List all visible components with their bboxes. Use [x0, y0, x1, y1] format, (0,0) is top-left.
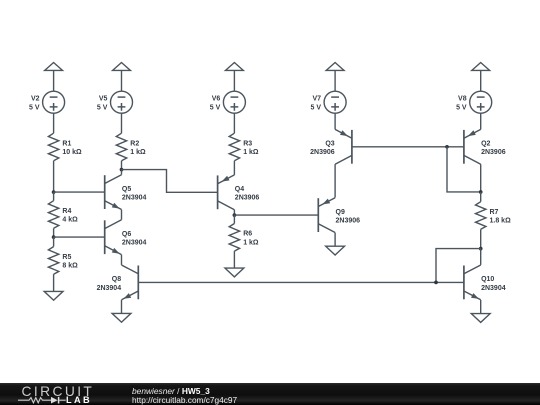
ground G4: [326, 246, 345, 255]
wire node A to R4: [53, 192, 55, 201]
wire node D to R6: [233, 215, 235, 223]
svg-text:V2: V2: [31, 95, 40, 102]
svg-text:R5: R5: [62, 254, 71, 261]
svg-text:2N3906: 2N3906: [235, 195, 260, 202]
resistor R5 8k: [48, 247, 78, 275]
svg-text:R7: R7: [490, 209, 499, 216]
node A junction: [52, 190, 56, 194]
transistor Q3 2N3906: [310, 129, 352, 164]
node D junction: [233, 213, 237, 217]
logo word LAB: [66, 395, 92, 405]
wire Q2 base feedback to collector: [447, 147, 481, 192]
ground G1: [44, 291, 63, 300]
wire Q5 collector to node C: [121, 170, 123, 175]
voltage source V6: [210, 91, 246, 113]
power flag VCC3: [226, 63, 244, 92]
voltage source V7: [310, 91, 346, 113]
svg-text:V7: V7: [312, 95, 321, 102]
resistor R1 10k: [48, 133, 82, 161]
wire Q9 collector to ground: [334, 233, 336, 247]
wire node B to Q6 base: [54, 236, 105, 238]
transistor Q10 2N3904: [464, 265, 506, 300]
svg-text:Q10: Q10: [481, 276, 494, 283]
svg-text:Q5: Q5: [122, 186, 131, 193]
svg-text:5 V: 5 V: [210, 104, 221, 111]
svg-text:5 V: 5 V: [29, 104, 40, 111]
wire Q4 collector to node D: [233, 210, 235, 215]
footer title line: [132, 386, 210, 396]
wire node B to R5: [53, 237, 55, 247]
svg-text:2N3906: 2N3906: [336, 218, 361, 225]
svg-text:1.8 kΩ: 1.8 kΩ: [490, 218, 512, 225]
resistor R4 4k: [48, 201, 78, 229]
wire Q6 emitter to Q8 collector: [121, 255, 123, 265]
wire V5 to R2: [121, 113, 123, 133]
svg-text:R2: R2: [130, 140, 139, 147]
resistor R6 1k: [229, 224, 259, 252]
wire R7 to node G: [480, 229, 482, 248]
wire node G to Q10 collector: [480, 249, 482, 265]
node F junction: [479, 190, 483, 194]
wire node G to Q10 base loop: [436, 249, 481, 283]
wire R4 to node B: [53, 228, 55, 237]
svg-text:R3: R3: [243, 140, 252, 147]
wire V8 to Q2 emitter: [480, 113, 482, 129]
node H junction: [434, 281, 438, 285]
wire R3 to Q4 emitter: [233, 161, 235, 175]
svg-text:V6: V6: [212, 95, 221, 102]
power flag VCC4: [326, 63, 344, 92]
node E junction: [445, 145, 449, 149]
svg-text:Q4: Q4: [235, 186, 244, 193]
wire R1 to node A: [53, 161, 55, 192]
svg-text:2N3904: 2N3904: [122, 195, 147, 202]
svg-text:5 V: 5 V: [456, 104, 467, 111]
node C junction: [120, 168, 124, 172]
voltage source V5: [97, 91, 133, 113]
svg-text:R4: R4: [62, 208, 71, 215]
footer url line: [132, 395, 237, 405]
resistor R2 1k: [116, 133, 146, 161]
logo word CIRCUIT: [22, 384, 95, 399]
wire node F to R7: [480, 192, 482, 202]
svg-text:R1: R1: [62, 140, 71, 147]
svg-text:5 V: 5 V: [310, 104, 321, 111]
svg-text:5 V: 5 V: [97, 104, 108, 111]
wire node A to Q5 base: [54, 191, 105, 193]
svg-text:Q8: Q8: [112, 276, 121, 283]
resistor R7 1.8k: [476, 202, 512, 230]
svg-text:2N3904: 2N3904: [122, 240, 147, 247]
logo resistor-diode glyph: [15, 396, 69, 405]
wire Q8 base to Q10 base: [138, 281, 464, 283]
svg-text:2N3906: 2N3906: [310, 149, 335, 156]
svg-text:Q3: Q3: [325, 141, 334, 148]
wire Q8 emitter to ground: [121, 300, 123, 314]
svg-text:Q6: Q6: [122, 231, 131, 238]
svg-text:1 kΩ: 1 kΩ: [130, 149, 146, 156]
node G junction: [479, 247, 483, 251]
wire Q3 base to Q2 base: [352, 146, 464, 148]
transistor Q4 2N3906: [218, 175, 260, 210]
svg-text:4 kΩ: 4 kΩ: [62, 217, 78, 224]
svg-text:2N3904: 2N3904: [481, 285, 506, 292]
svg-text:8 kΩ: 8 kΩ: [62, 262, 78, 269]
svg-text:Q2: Q2: [481, 141, 490, 148]
svg-text:2N3906: 2N3906: [481, 149, 506, 156]
wire V2 to R1: [53, 113, 55, 133]
wire V7 to Q3 emitter: [334, 113, 336, 129]
wire Q3 collector to Q9 emitter: [334, 164, 336, 197]
footer bar: [0, 383, 540, 405]
ground G5: [471, 314, 490, 323]
wire R5 to ground: [53, 274, 55, 291]
voltage source V8: [456, 91, 492, 113]
transistor Q2 2N3906: [464, 129, 506, 164]
wire Q5 emitter to Q6 collector: [121, 210, 123, 220]
power flag VCC2: [113, 63, 131, 92]
transistor Q5 2N3904: [105, 175, 147, 210]
wire V6 to R3: [233, 113, 235, 133]
resistor R3 1k: [229, 133, 259, 161]
node B junction: [52, 235, 56, 239]
svg-text:R6: R6: [243, 231, 252, 238]
svg-text:2N3904: 2N3904: [97, 285, 122, 292]
wire R6 to ground: [233, 251, 235, 268]
svg-text:1 kΩ: 1 kΩ: [243, 239, 259, 246]
ground G2: [112, 313, 131, 322]
wire Q2 collector to node F: [480, 164, 482, 192]
svg-text:V8: V8: [458, 95, 467, 102]
wire Q10 emitter to ground: [480, 300, 482, 314]
svg-text:Q9: Q9: [336, 209, 345, 216]
transistor Q8 2N3904: [97, 265, 139, 300]
ground G3: [225, 268, 244, 277]
svg-text:1 kΩ: 1 kΩ: [243, 149, 259, 156]
svg-text:10 kΩ: 10 kΩ: [62, 149, 82, 156]
wire node D to Q9 base: [234, 214, 318, 216]
transistor Q6 2N3904: [105, 220, 147, 255]
voltage source V2: [29, 91, 65, 113]
power flag VCC5: [472, 63, 490, 92]
svg-text:V5: V5: [99, 95, 108, 102]
wire R2 to node C: [121, 161, 123, 170]
wire node C to Q4 base: [122, 170, 218, 193]
power flag VCC1: [45, 63, 63, 92]
transistor Q9 2N3906: [318, 198, 360, 233]
